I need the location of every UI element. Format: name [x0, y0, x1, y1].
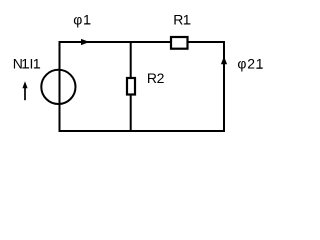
wire top-left segment (node phi1 to R1): [60, 41, 171, 43]
svg-text:N1I1: N1I1: [13, 55, 42, 71]
current source N1I1 (circle): [41, 70, 75, 104]
svg-text:R2: R2: [147, 70, 165, 86]
wire right branch: [223, 41, 225, 131]
resistor R2 (vertical box): [127, 78, 135, 95]
svg-text:φ21: φ21: [237, 56, 264, 72]
current direction arrow on top wire: [81, 39, 90, 45]
wire left branch (through current source): [59, 41, 61, 131]
'1' glyph serif feet (label detail): [23, 23, 262, 69]
svg-text:φ1: φ1: [73, 11, 91, 27]
svg-text:R1: R1: [173, 11, 191, 27]
wire top-right segment (R1 to right corner): [189, 41, 225, 43]
wire middle lower (R2 to bottom): [130, 96, 132, 132]
resistor R1 (horizontal box): [171, 37, 188, 49]
wire bottom: [59, 130, 226, 132]
source current arrow (small, left of source): [22, 81, 27, 100]
wire middle upper (node to R2): [130, 41, 132, 77]
voltage arrow phi21 on right branch: [221, 56, 227, 64]
